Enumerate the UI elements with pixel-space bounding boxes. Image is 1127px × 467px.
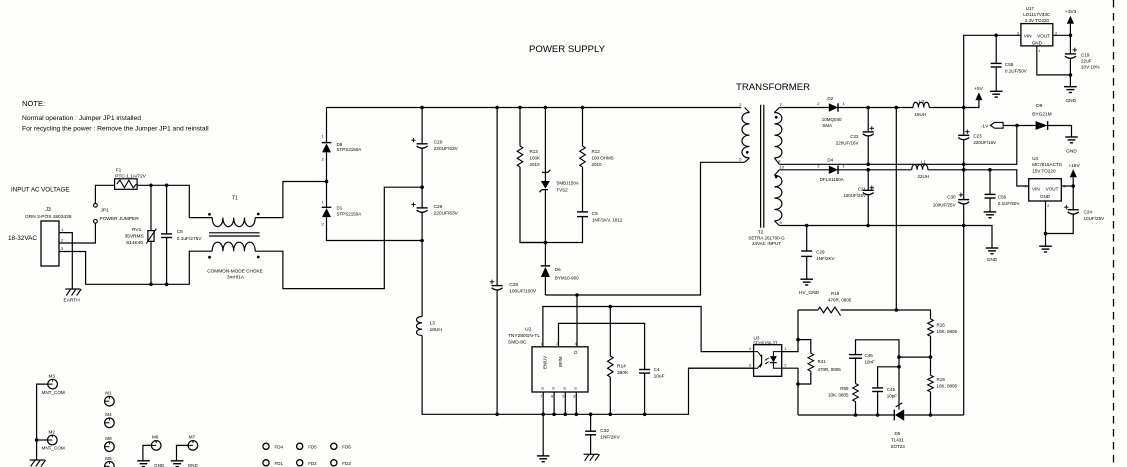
svg-text:STPS2150A: STPS2150A — [337, 212, 362, 217]
label U2 — [525, 327, 531, 333]
label C5 — [592, 211, 598, 216]
junction TVS2 top — [544, 106, 548, 110]
junction R16 R19 — [929, 355, 933, 359]
wire choke top-right to diode junction — [255, 182, 326, 218]
svg-text:2: 2 — [556, 342, 558, 346]
diode D4 — [829, 166, 838, 174]
pin name GND (U4) — [1040, 194, 1051, 199]
value BYG21M — [1032, 112, 1051, 118]
svg-text:100UF/100V: 100UF/100V — [509, 289, 537, 295]
value 0.1UF/50V (C55) — [1005, 69, 1028, 74]
capacitor C32 — [585, 414, 596, 454]
ground under D9 — [1065, 137, 1078, 143]
label M3 — [49, 373, 56, 378]
junction R13 top — [518, 106, 522, 110]
value 100UF/100V (C28) — [509, 289, 537, 295]
capacitor C6 — [161, 185, 172, 284]
value 3mH/1A — [227, 275, 245, 280]
pin name S2 — [552, 386, 555, 390]
svg-text:R58: R58 — [840, 386, 849, 391]
svg-text:U4: U4 — [1032, 156, 1038, 161]
junction U2 drain — [575, 293, 579, 297]
svg-text:100UF/25V: 100UF/25V — [843, 193, 866, 198]
mount hole M8 — [105, 442, 115, 452]
wire BP/M to C4 — [559, 323, 645, 369]
svg-text:18UH: 18UH — [915, 112, 927, 117]
label GND (D9) — [1066, 148, 1077, 154]
pin name VOUT (U4) — [1046, 186, 1059, 191]
wire feedback bottom rail left — [798, 414, 894, 416]
svg-text:FD6: FD6 — [342, 444, 351, 449]
svg-text:10K, 0805: 10K, 0805 — [937, 383, 958, 388]
wire +5V rail — [838, 100, 979, 108]
sheet border (dashed) — [1113, 0, 1115, 467]
svg-text:10UF/25V: 10UF/25V — [1084, 216, 1106, 221]
capacitor C5 — [545, 212, 588, 243]
svg-text:7: 7 — [540, 395, 542, 399]
polarity + C24 — [1064, 205, 1068, 209]
value GRN 3-POS 1803439 — [25, 214, 72, 220]
junction C20 top — [420, 106, 424, 110]
label U3 — [754, 336, 760, 341]
value 1NF/1KV 1812 — [592, 217, 623, 222]
svg-text:M3: M3 — [49, 373, 56, 378]
svg-text:C19: C19 — [1081, 53, 1090, 58]
svg-text:DFLS1150A: DFLS1150A — [820, 177, 844, 182]
svg-text:1NF/2KV: 1NF/2KV — [600, 435, 620, 441]
label C56 — [998, 194, 1007, 199]
wire C23 between rails — [963, 164, 965, 170]
label EARTH — [64, 298, 81, 304]
svg-text:SETRA 261700-G: SETRA 261700-G — [748, 235, 785, 240]
resistor R12 — [580, 108, 586, 212]
value TNY280GN-TL — [508, 333, 540, 339]
label M8 — [105, 436, 112, 441]
resistor R19 — [928, 357, 934, 415]
value TL431 — [891, 437, 904, 442]
polarity + C26 — [411, 202, 415, 206]
junction source 2 — [552, 413, 556, 417]
junction C4 bottom — [643, 413, 647, 417]
svg-text:10pF: 10pF — [887, 394, 898, 399]
svg-text:GND: GND — [1032, 40, 1043, 45]
fiducial FD2 — [297, 460, 318, 466]
value COMMON-MODE CHOKE — [207, 268, 262, 273]
wire lower stacked rail — [838, 170, 1029, 186]
pin name D — [574, 350, 577, 355]
svg-text:NOTE:: NOTE: — [22, 99, 45, 108]
label M7 — [189, 435, 196, 440]
note heading — [22, 99, 45, 108]
svg-text:GND: GND — [188, 463, 199, 467]
svg-text:15V TO220: 15V TO220 — [1032, 168, 1056, 173]
junction sense top — [895, 106, 899, 110]
value SMA — [822, 123, 832, 128]
svg-text:18-32VAC: 18-32VAC — [8, 235, 37, 242]
svg-text:24VAC INPUT: 24VAC INPUT — [752, 241, 781, 246]
wire sense line — [895, 108, 897, 311]
label T2 — [758, 230, 764, 236]
label D6 — [555, 267, 561, 272]
junction C29 top — [805, 224, 809, 228]
wire upper stacked rail — [779, 126, 1017, 165]
pin 1 label U4 — [1024, 183, 1027, 188]
svg-text:18UH: 18UH — [430, 327, 443, 333]
pin 2 label D4 — [817, 164, 820, 169]
svg-text:22uF: 22uF — [1081, 59, 1092, 64]
svg-text:1: 1 — [541, 342, 543, 346]
resistor R41 — [798, 340, 814, 384]
svg-text:EN/UV: EN/UV — [543, 356, 548, 369]
junction source 3 — [564, 413, 568, 417]
mount hole M5 — [105, 462, 115, 467]
junction C23 upper rail — [962, 163, 966, 167]
svg-text:For recycling the power : Remo: For recycling the power : Remove the Jum… — [22, 126, 209, 133]
label L2 — [919, 99, 925, 104]
resistor R16 — [928, 319, 934, 357]
label C21 — [858, 187, 867, 192]
value PTC 1.1A/72V — [115, 174, 146, 180]
svg-text:MNT_COM: MNT_COM — [42, 446, 65, 451]
svg-text:M8: M8 — [105, 436, 112, 441]
svg-text:0.1UF/50V: 0.1UF/50V — [998, 201, 1020, 206]
junction C32 top — [589, 413, 593, 417]
title POWER SUPPLY — [529, 44, 606, 55]
wire divider tap — [899, 356, 931, 358]
pin 8 label T2 — [778, 159, 781, 164]
wire U17 GND — [1037, 46, 1071, 75]
label R12 — [592, 149, 601, 154]
svg-text:1: 1 — [1038, 49, 1040, 53]
resistor R18 — [818, 307, 841, 315]
capacitor C56 — [985, 170, 996, 212]
pin name VOUT (U17) — [1037, 33, 1050, 38]
capacitor C28 — [492, 108, 503, 415]
svg-text:C20: C20 — [434, 140, 443, 146]
svg-text:C28: C28 — [509, 282, 518, 288]
label MNT_COM (M3) — [42, 390, 65, 395]
ground primary GND — [537, 456, 550, 462]
junction ref node — [897, 355, 901, 359]
varistor RV1 — [146, 185, 156, 284]
label GND common — [987, 257, 998, 263]
svg-text:GND: GND — [154, 463, 165, 467]
wire C45 branch — [878, 367, 899, 388]
value 220UF/16V (C22) — [836, 140, 859, 145]
polarity + C28 — [490, 280, 494, 284]
svg-text:C23: C23 — [973, 133, 982, 138]
label M5 — [105, 456, 112, 461]
junction R19 bottom — [929, 413, 933, 417]
svg-text:M5: M5 — [105, 456, 112, 461]
svg-text:M2: M2 — [49, 429, 56, 434]
svg-text:C32: C32 — [600, 428, 609, 434]
label F1 — [116, 168, 122, 174]
junction cap midpoint — [420, 185, 424, 189]
label GND (M6) — [154, 463, 165, 467]
value 220UF/63V (C26) — [434, 211, 459, 217]
wire F1 to choke top-left — [137, 185, 212, 217]
polarity + C22 — [870, 126, 874, 130]
svg-text:-1V: -1V — [981, 124, 989, 130]
svg-text:L2: L2 — [919, 99, 925, 104]
label C30 — [947, 194, 956, 199]
svg-text:Normal operation : Jumper JP1: Normal operation : Jumper JP1 installed — [22, 115, 141, 122]
junction TVS2 bottom — [544, 241, 548, 245]
svg-text:D6: D6 — [555, 267, 561, 272]
label C29 — [816, 249, 825, 254]
ground under C55 — [990, 91, 1003, 97]
label M6 — [152, 435, 159, 440]
svg-text:C26: C26 — [434, 204, 443, 210]
wire feedback top rail — [798, 310, 931, 319]
ground under U4 — [1039, 246, 1052, 252]
diode D2 — [829, 103, 838, 111]
connector J3 — [41, 221, 59, 266]
junction C28 top — [495, 106, 499, 110]
fiducial FD3 — [331, 460, 352, 466]
wire U2 source stub 3 — [564, 392, 566, 414]
wire pin10 to D4 — [779, 169, 829, 171]
label C46 — [865, 353, 874, 358]
value SMD-8C — [508, 340, 527, 346]
shunt regulator D5 TL431 — [894, 409, 904, 420]
svg-text:10MQ040: 10MQ040 — [822, 117, 842, 122]
svg-text:JP1: JP1 — [101, 208, 110, 214]
value 100K (R13) — [530, 156, 541, 161]
label C45 — [887, 387, 896, 392]
label R18 — [831, 291, 840, 296]
svg-text:HV_GND: HV_GND — [799, 290, 820, 296]
pin 2 label J3 — [61, 238, 64, 243]
svg-text:+15V: +15V — [1068, 163, 1080, 169]
pin 2 label U4 — [1047, 204, 1049, 208]
value SETRA 261700-G — [748, 235, 785, 240]
wire J3 pin3 to choke bottom-left — [59, 251, 212, 284]
value 18UH (L3) — [430, 327, 443, 333]
svg-text:220UF/63V: 220UF/63V — [434, 146, 459, 152]
svg-text:FD5: FD5 — [308, 444, 317, 449]
wire pin7 to D2 — [779, 107, 829, 109]
svg-text:10K, 0805: 10K, 0805 — [937, 329, 958, 334]
value S14K40 — [126, 240, 143, 246]
pin 6 label U2 — [551, 395, 553, 399]
wire M3 to M2 — [37, 384, 48, 440]
junction R41 top — [796, 338, 800, 342]
pin 3 label U4 — [1063, 183, 1066, 188]
wire C26 to L3 — [421, 241, 423, 317]
mount hole M6 — [151, 441, 161, 451]
svg-text:D5: D5 — [895, 431, 901, 436]
pin 1 label U17 — [1038, 49, 1040, 53]
junction C19 bottom — [1069, 73, 1073, 77]
junction C21 bottom — [866, 224, 870, 228]
svg-text:SMD-8C: SMD-8C — [508, 340, 527, 346]
label C32 — [600, 428, 609, 434]
label INPUT AC VOLTAGE — [11, 187, 69, 194]
value 10K 0805 (R19) — [937, 383, 958, 388]
pin 2 label U3 — [784, 363, 787, 368]
label D5 — [895, 431, 901, 436]
junction C6 top — [165, 184, 169, 188]
pin name VIN (U4) — [1032, 186, 1040, 191]
pin name EN/UV — [543, 356, 548, 369]
inductor L3 — [416, 317, 422, 336]
pin 1 label D8 — [322, 134, 325, 139]
svg-text:220UF/63V: 220UF/63V — [434, 211, 459, 217]
note line 1 — [22, 115, 141, 122]
junction C23 lower rail — [962, 168, 966, 172]
pin 3 label U3 — [749, 363, 752, 368]
value BYM10-900 — [555, 275, 579, 280]
pin 2 label T2 — [739, 102, 742, 107]
earth symbol (mount) — [30, 460, 46, 467]
power flag +5V — [974, 86, 983, 100]
svg-text:BYG21M: BYG21M — [1032, 112, 1051, 118]
label C26 — [434, 204, 443, 210]
value 10nF (C46) — [865, 359, 876, 364]
ground common GND — [986, 248, 999, 254]
wire TL431 ref — [896, 357, 903, 409]
svg-text:S: S — [563, 386, 566, 390]
wire opto cathode bus — [782, 310, 798, 352]
junction C22 bottom upper rail — [866, 163, 870, 167]
svg-text:TVS2: TVS2 — [556, 188, 568, 193]
svg-text:TL431: TL431 — [891, 437, 904, 442]
label C22 — [850, 134, 859, 139]
svg-text:S: S — [574, 386, 577, 390]
pin name BP/M — [558, 356, 563, 367]
wire opto anode bus — [782, 368, 798, 415]
pin 5 label U2 — [562, 395, 564, 399]
wire M2 wire — [37, 439, 48, 441]
svg-text:STPS2150A: STPS2150A — [337, 147, 362, 152]
wire U2 drain stub — [576, 295, 578, 347]
pin 3 label U17 — [1017, 30, 1020, 35]
capacitor C21 — [863, 170, 874, 226]
value STPS2150A (D1) — [337, 212, 362, 217]
svg-text:M6: M6 — [152, 435, 159, 440]
label GND (C19) — [1065, 98, 1076, 104]
svg-text:GRN 3-POS 1803439: GRN 3-POS 1803439 — [25, 214, 72, 220]
svg-text:R16: R16 — [937, 323, 946, 328]
svg-text:F1: F1 — [116, 168, 122, 174]
fiducial FD1 — [263, 460, 284, 466]
capacitor C46 — [849, 355, 862, 384]
capacitor C19 — [1065, 35, 1076, 75]
wire snubber junction — [520, 242, 545, 244]
wire primary bottom rail — [422, 336, 753, 415]
svg-text:0.1uF/275V: 0.1uF/275V — [177, 236, 203, 242]
pin 9 label T2 — [780, 220, 783, 225]
svg-text:5: 5 — [562, 395, 564, 399]
value 10pF (C45) — [887, 394, 898, 399]
pin 2 label D8 — [322, 156, 325, 161]
junction R14 bottom — [609, 413, 613, 417]
value 2010 (R12) — [592, 162, 603, 167]
svg-text:D: D — [574, 350, 577, 355]
junction common C30 — [962, 224, 966, 228]
junction C21 top lower rail — [866, 168, 870, 172]
svg-text:T1: T1 — [232, 196, 238, 202]
label C6 — [177, 229, 183, 235]
note line 2 — [22, 126, 209, 133]
pin 7 label U2 — [540, 395, 542, 399]
value 24VAC INPUT — [752, 241, 781, 246]
pin 1 label D4 — [843, 164, 846, 169]
junction R41 bottom — [796, 382, 800, 386]
inductor L1 — [912, 165, 928, 170]
svg-text:EARTH: EARTH — [64, 298, 81, 304]
diode D8 — [322, 108, 332, 182]
svg-text:R18: R18 — [831, 291, 840, 296]
svg-text:1NF/2KV: 1NF/2KV — [816, 256, 834, 261]
label C28 — [509, 282, 518, 288]
svg-text:M7: M7 — [189, 435, 196, 440]
label R41 — [818, 359, 827, 364]
label M4 — [105, 412, 112, 417]
svg-text:POWER JUMPER: POWER JUMPER — [100, 216, 140, 222]
svg-text:SOT23: SOT23 — [891, 444, 906, 449]
polarity + C20 — [411, 138, 415, 142]
diode D9 — [1036, 121, 1048, 130]
svg-text:D9: D9 — [1036, 103, 1042, 109]
fuse F1 — [115, 179, 138, 190]
svg-text:470R, 0805: 470R, 0805 — [828, 298, 852, 303]
wire opto emitter — [689, 367, 754, 369]
svg-text:2010: 2010 — [530, 162, 541, 167]
value 1NF/2KV (C32) — [600, 435, 620, 441]
label POWER JUMPER — [100, 216, 140, 222]
svg-text:R14: R14 — [617, 364, 626, 370]
earth symbol EARTH — [65, 289, 81, 296]
junction R12 top — [581, 106, 585, 110]
wire U4 GND — [1045, 201, 1047, 246]
svg-text:INPUT AC VOLTAGE: INPUT AC VOLTAGE — [11, 187, 69, 194]
capacitor C29 — [801, 226, 812, 279]
svg-text:R19: R19 — [937, 377, 946, 382]
wire U2 source stub 1 — [542, 392, 544, 414]
label C4 — [654, 367, 660, 373]
svg-text:D4: D4 — [827, 158, 833, 163]
ground HV_GND — [800, 279, 813, 285]
mount hole M7 — [188, 441, 198, 451]
pin name VIN (U17) — [1024, 33, 1032, 38]
pin 7 label T2 — [780, 102, 783, 107]
svg-text:TNY280GN-TL: TNY280GN-TL — [508, 333, 540, 339]
wire M7 to gnd — [177, 445, 189, 460]
wire U2 source stub 2 — [553, 392, 555, 414]
wire EN/UV to opto collector — [543, 307, 754, 352]
pin 2 label D2 — [817, 101, 820, 106]
value 10UF/25V (C24) — [1084, 216, 1106, 221]
junction source 1 — [541, 413, 545, 417]
value 10uF (C4) — [654, 373, 665, 379]
svg-text:3.3V TO220: 3.3V TO220 — [1025, 18, 1050, 23]
value 220UF/63V (C20) — [434, 146, 459, 152]
value 18UH (L2) — [915, 112, 927, 117]
junction RV1 bottom — [149, 283, 153, 287]
junction C28 bottom — [495, 413, 499, 417]
wire feedback return — [963, 226, 965, 416]
svg-text:C22: C22 — [850, 134, 859, 139]
IC U17 regulator — [1021, 24, 1053, 46]
junction C56 top — [988, 168, 992, 172]
value STPS2150A (D8) — [337, 147, 362, 152]
label HV_GND — [799, 290, 820, 296]
svg-text:GND: GND — [987, 257, 998, 263]
svg-text:U17: U17 — [1026, 6, 1035, 11]
